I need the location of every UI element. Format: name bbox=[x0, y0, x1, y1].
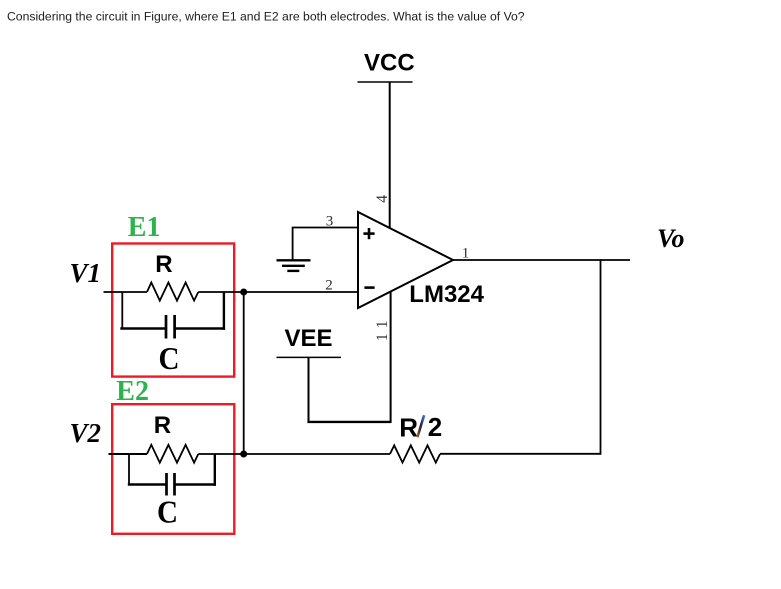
svg-text:E2: E2 bbox=[116, 376, 149, 407]
wire node B to resistor R/2 bbox=[244, 453, 390, 455]
svg-text:Considering the circuit in Fig: Considering the circuit in Figure, where… bbox=[7, 10, 525, 24]
wire resistor to node B bbox=[198, 453, 243, 455]
capacitor C (E2) plates bbox=[167, 473, 175, 496]
svg-text:1: 1 bbox=[374, 333, 391, 341]
svg-text:4: 4 bbox=[374, 195, 391, 203]
resistor R (E1) bbox=[147, 283, 198, 301]
node B junction dot bbox=[240, 451, 247, 458]
wire feedback vertical bbox=[600, 260, 602, 455]
wire node A to op-amp pin 2 bbox=[244, 291, 358, 293]
capacitor C (E2) left lead bbox=[128, 483, 167, 486]
capacitor C (E1) left lead bbox=[120, 327, 166, 330]
VCC power rail bbox=[358, 81, 413, 83]
wire pin 3 (ground to + input) bbox=[293, 228, 358, 260]
svg-text:C: C bbox=[159, 341, 180, 376]
op-amp U1 LM324 triangle bbox=[358, 212, 453, 308]
svg-text:LM324: LM324 bbox=[409, 281, 484, 308]
wire V1 input to resistor bbox=[104, 291, 148, 293]
svg-text:3: 3 bbox=[326, 213, 334, 229]
svg-text:2: 2 bbox=[428, 412, 442, 442]
R/2 label bbox=[399, 412, 442, 443]
svg-text:R: R bbox=[399, 412, 418, 442]
svg-text:1: 1 bbox=[374, 321, 391, 329]
VEE rail bbox=[277, 356, 342, 358]
op-amp plus input symbol bbox=[363, 228, 374, 239]
wire op-amp output bbox=[453, 259, 630, 261]
wire V2 input to resistor bbox=[109, 453, 148, 455]
svg-text:V1: V1 bbox=[70, 258, 102, 288]
capacitor C (E2) right lead bbox=[175, 483, 217, 486]
svg-text:C: C bbox=[157, 494, 178, 529]
wire R/2 to feedback corner bbox=[440, 453, 601, 455]
wire VEE bottom horizontal bbox=[307, 421, 390, 423]
svg-text:VCC: VCC bbox=[364, 50, 415, 77]
ground bbox=[277, 260, 311, 271]
svg-text:R: R bbox=[155, 251, 172, 278]
resistor R (E2) bbox=[147, 445, 198, 463]
wire pin 11 (op-amp bottom to VEE) bbox=[390, 292, 392, 423]
svg-text:E1: E1 bbox=[128, 212, 161, 243]
capacitor C (E1) left stub bbox=[121, 292, 123, 329]
electrode E1 red box bbox=[112, 244, 234, 377]
svg-text:VEE: VEE bbox=[285, 325, 333, 352]
wire resistor to node A bbox=[198, 291, 243, 293]
capacitor C (E1) right lead bbox=[175, 327, 226, 330]
capacitor C (E1) plates bbox=[166, 315, 175, 339]
capacitor C (E1) right stub bbox=[223, 292, 225, 330]
svg-text:Vo: Vo bbox=[657, 224, 684, 253]
capacitor C (E2) left stub bbox=[128, 454, 130, 485]
wire pin 4 (VCC to op-amp top) bbox=[389, 82, 391, 228]
wire node A to node B bbox=[243, 292, 245, 454]
node A junction dot bbox=[240, 289, 247, 296]
svg-text:R: R bbox=[154, 412, 171, 439]
wire VEE stub down bbox=[308, 357, 310, 422]
capacitor C (E2) right stub bbox=[214, 454, 216, 486]
svg-text:V2: V2 bbox=[70, 418, 102, 448]
resistor R/2 bbox=[390, 445, 440, 462]
op-amp minus input symbol bbox=[364, 286, 374, 289]
electrode E2 red box bbox=[112, 404, 234, 534]
